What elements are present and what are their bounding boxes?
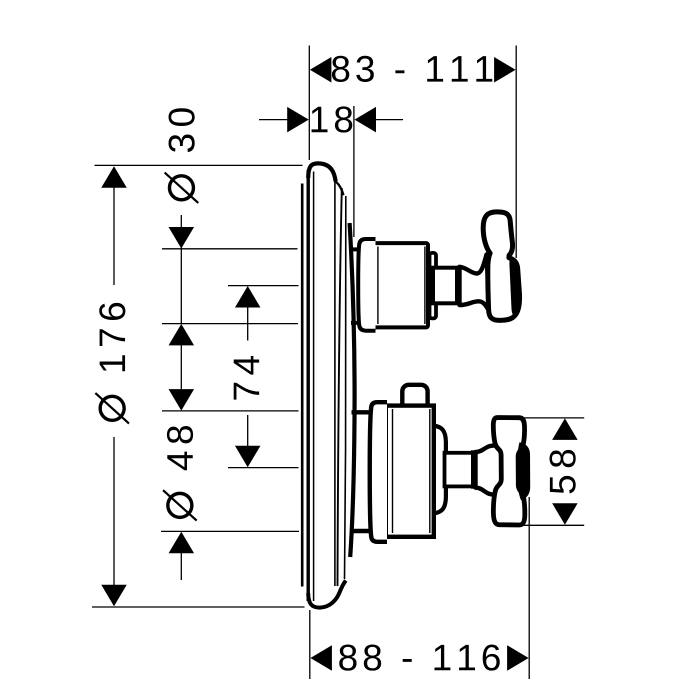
dim O30 tick top [162,248,298,250]
dim O176 top tick [95,164,303,166]
lower cylinder [386,406,434,537]
knob [402,385,427,410]
dim 18 right arrow tail [375,119,403,121]
lower valve [370,385,530,542]
label 74 [234,356,259,400]
upper stem end washer [457,266,462,306]
upper cylinder [372,243,428,327]
label 18 [312,106,353,132]
upper cylinder inner lines [377,247,379,325]
lever dark edge band [509,258,520,314]
upper flange [358,239,375,331]
plate rim front line [345,196,347,579]
dim 18 arrows [287,107,309,133]
upper stem [433,268,457,304]
plate inner line [313,172,315,602]
adapter [433,426,446,514]
dim 88-116 left extension line [309,610,311,679]
dim O30 tick bottom [162,323,298,325]
label O176 [95,303,129,424]
lower stem [445,453,474,487]
dim O48 arrows (outside) [169,389,195,411]
plate dome left edge [307,170,310,601]
dim O176 bottom tick [92,606,305,608]
lower flange [370,402,387,542]
upper connector edges [351,247,361,251]
lower hub [476,446,502,495]
lever handle [483,212,519,321]
dim O176 arrows [101,166,127,188]
dim 18 right extension line [353,106,355,237]
dim 58 top tick [523,417,584,419]
cross handle [493,418,525,526]
dim 18 left arrow tail [259,119,288,121]
plate line 2 [334,182,336,587]
label O30 [165,108,199,203]
plate dome bottom arc [308,581,346,608]
dim O30 arrows (outside) [169,227,195,249]
label 83 - 111 [332,56,492,82]
plate line 3 [338,188,342,586]
dim 74 stem [247,305,249,341]
label O48 [163,426,197,521]
dim 74 arrows (inside) [235,286,261,308]
dim 88-116 arrows [310,645,332,671]
dim 83-111 left extension line [308,46,310,161]
chain stem [180,215,182,323]
label 58 [550,450,576,494]
lower cylinder inner lines [392,409,394,533]
label 88 - 116 [339,644,500,670]
dim O176 stem [113,186,115,285]
dim 74 tick bottom [228,467,299,469]
dim 83-111 right extension line [515,46,517,259]
dim 58 arrows (inside) [552,418,578,440]
dim 74 tick top [228,285,299,287]
dim 58 bottom tick [523,524,584,526]
cartridge silhouette edge [350,223,355,557]
upper end cap [430,253,437,319]
dim O48 tick top [162,410,299,412]
dim 88-116 right extension line [528,497,530,679]
dim 83-111 arrows [310,57,332,83]
dim O48 tick bottom [161,530,299,532]
plate rim top curve [336,182,344,196]
plate back bar [301,184,304,587]
lower stem end washer [471,450,475,488]
cross handle dark edge band [517,442,530,500]
lower connector edges [352,410,373,414]
plate dome top arc [308,163,336,181]
upper valve [358,212,520,331]
upper hub [460,255,490,312]
